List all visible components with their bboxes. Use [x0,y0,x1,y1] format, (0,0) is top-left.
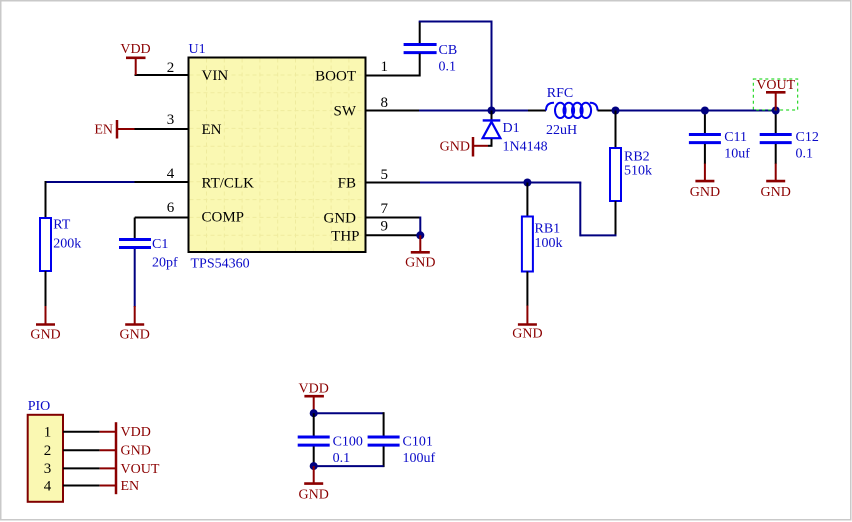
port EN (PIO pin4) [100,478,139,495]
port VOUT (PIO pin3) [100,460,160,478]
wire RFC to output node [598,110,776,112]
svg-text:8: 8 [381,95,389,111]
svg-text:RB2: RB2 [624,150,650,165]
node C100 top junction [310,409,318,417]
ground GND (at D1) [440,137,488,157]
svg-text:VIN: VIN [202,68,229,84]
svg-text:RT/CLK: RT/CLK [202,175,255,191]
svg-text:C101: C101 [403,435,433,450]
svg-text:THP: THP [331,228,359,244]
wire PIO pin4 [63,485,100,487]
node pins 7/9 junction [416,231,424,239]
node RB2 top junction [612,107,620,115]
svg-text:10uf: 10uf [724,147,750,162]
node C11 junction [701,107,709,115]
svg-text:COMP: COMP [202,210,245,226]
port GND (PIO pin2) [100,441,151,460]
svg-text:FB: FB [338,175,356,191]
svg-text:200k: 200k [53,236,81,251]
wire SW net [419,110,546,112]
resistor RB1 [522,217,563,272]
svg-text:100k: 100k [535,236,563,251]
svg-text:RB1: RB1 [535,222,561,237]
svg-text:3: 3 [44,461,52,477]
pin 8 SW [365,95,420,111]
svg-text:PIO: PIO [28,399,51,414]
node C12 junction [772,107,780,115]
capacitor C12 [760,111,819,162]
svg-text:RFC: RFC [547,86,573,101]
svg-text:510k: 510k [624,164,652,179]
svg-text:BOOT: BOOT [315,68,356,84]
ground GND (under C1) [120,306,150,343]
resistor RT [40,218,81,272]
wire D1 anode to GND [488,139,493,146]
svg-text:GND: GND [440,140,470,155]
svg-text:C1: C1 [152,237,168,252]
wire FB net [420,182,581,184]
pin 2 VIN [135,60,190,76]
wire RB2 bottom to FB [580,183,616,237]
connector PIO [28,399,63,502]
inductor RFC 22uH [546,86,598,138]
svg-text:2: 2 [167,60,175,76]
node SW junction [488,107,496,115]
svg-text:1N4148: 1N4148 [503,140,548,155]
wire pins 7/9 tie [419,217,421,236]
svg-text:VDD: VDD [120,42,150,57]
svg-text:GND: GND [120,328,150,343]
capacitor C1 [119,237,178,271]
svg-text:C12: C12 [796,130,819,145]
ground GND (pins 7/9) [405,235,435,270]
svg-text:VOUT: VOUT [121,462,160,477]
svg-text:1: 1 [44,425,52,441]
svg-text:6: 6 [167,200,175,216]
wire PIO pin1 [63,431,100,433]
wire FB to RB1 [526,183,528,217]
wire GND rail (C100/C101 bottom) [314,465,384,467]
svg-text:GND: GND [512,327,542,342]
svg-text:EN: EN [121,479,140,494]
pin 5 FB [365,167,421,183]
wire pin6 to C1 [134,218,136,241]
wire PIO pin3 [63,467,100,469]
svg-text:0.1: 0.1 [796,147,814,162]
svg-text:TPS54360: TPS54360 [191,257,250,272]
svg-text:EN: EN [202,122,222,138]
svg-text:SW: SW [334,103,357,119]
svg-text:CB: CB [439,43,458,58]
pin 3 EN [134,112,190,129]
capacitor C101 [368,412,436,467]
pin 6 COMP [135,200,190,218]
svg-text:U1: U1 [189,42,206,57]
svg-text:GND: GND [761,185,791,200]
pin 9 THP [365,219,421,236]
svg-text:2: 2 [44,443,52,459]
capacitor C100 [298,413,363,466]
ground GND (under C11) [690,164,720,201]
svg-text:GND: GND [121,444,151,459]
ground GND (under RB1) [512,306,542,342]
wire C11 to GND [704,144,706,164]
svg-text:D1: D1 [503,121,520,136]
node C100 bottom junction [310,462,318,470]
ground GND (under C12) [761,164,791,201]
wire RT to GND [45,271,47,307]
pin 7 GND [365,201,421,218]
svg-text:7: 7 [381,201,389,217]
capacitor CB [404,43,458,75]
wire PIO pin2 [63,449,100,451]
svg-text:3: 3 [167,112,175,128]
svg-text:C11: C11 [724,130,747,145]
svg-text:GND: GND [324,210,357,226]
svg-text:0.1: 0.1 [439,60,457,75]
svg-text:22uH: 22uH [546,123,577,138]
wire CB bottom to pin1 [419,54,421,77]
port VDD (PIO pin1) [100,422,151,441]
wire C1 to GND [134,249,136,307]
svg-text:VDD: VDD [299,382,329,397]
svg-text:GND: GND [405,256,435,271]
svg-text:GND: GND [30,328,60,343]
svg-text:GND: GND [299,488,329,503]
wire RB1 to GND [526,272,528,307]
svg-text:RT: RT [53,218,70,233]
svg-text:VDD: VDD [121,425,151,440]
wire pin4 to RT [46,181,135,218]
power port VDD (top left) [120,42,150,75]
svg-text:9: 9 [381,219,389,235]
svg-text:5: 5 [381,167,389,183]
ground GND (under RT) [30,306,60,343]
svg-text:100uf: 100uf [403,451,436,466]
svg-text:VOUT: VOUT [756,78,795,93]
node FB junction [523,179,531,187]
capacitor C11 [689,111,750,162]
wire CB top loop [419,21,492,111]
svg-text:C100: C100 [333,435,363,450]
svg-text:4: 4 [167,166,175,182]
op-amp U1 body (TPS54360 IC) [189,42,366,272]
wire RB2 top [615,111,617,149]
svg-text:1: 1 [381,59,389,75]
pin 4 RT/CLK [135,166,190,182]
resistor RB2 [610,148,652,201]
svg-text:0.1: 0.1 [333,451,351,466]
port VOUT [753,78,797,111]
wire C12 to GND [775,144,777,164]
port EN (left) [94,120,134,139]
svg-text:EN: EN [94,123,113,138]
svg-text:4: 4 [44,478,52,494]
ground GND (decoupling) [299,466,329,502]
wire VDD rail (C100/C101 top) [314,412,384,414]
svg-text:GND: GND [690,185,720,200]
power port VDD (decoupling) [299,382,329,414]
diode D1 1N4148 [483,111,548,155]
svg-text:20pf: 20pf [152,256,178,271]
pin 1 BOOT [365,59,420,76]
